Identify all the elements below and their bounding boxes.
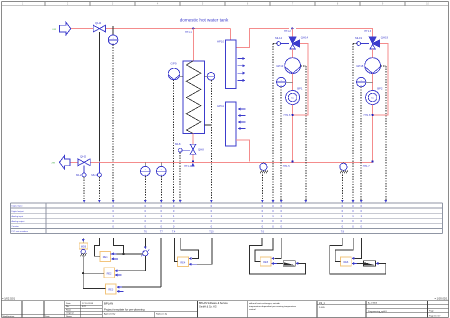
svg-text:HT1.3: HT1.3 (364, 30, 371, 33)
actuator ML8 (175, 142, 190, 152)
wire signal frame right of GP18 (372, 29, 374, 37)
svg-text:No.: No. (66, 306, 70, 308)
wire cold water pipe from QH4 down to return (98, 32, 100, 162)
relay RE2 (104, 268, 115, 278)
wire lamp to RE2 (118, 256, 146, 271)
relay RE4 (177, 257, 188, 267)
svg-text:HP10: HP10 (217, 40, 224, 44)
svg-text:ML4: ML4 (91, 173, 97, 177)
wire red HP11 to return (236, 140, 249, 162)
svg-text:ML2: ML2 (76, 173, 82, 177)
io table values (112, 204, 362, 234)
wire RE3 to table (117, 238, 161, 288)
wire signal ML2 to table (83, 177, 85, 202)
pin RE3 lower (117, 290, 123, 292)
svg-text:HT1.7: HT1.7 (363, 165, 370, 168)
lamp HL1 (141, 238, 149, 256)
svg-text:QH19: QH19 (381, 36, 389, 40)
tank heat exchanger W1 (183, 61, 205, 134)
valve QH2 (78, 155, 90, 166)
svg-text:without heat exchanger, outsid: without heat exchanger, outside (249, 302, 281, 305)
svg-text:Replaces by: Replaces by (156, 314, 167, 316)
svg-text:domestic hot water tank: domestic hot water tank (180, 18, 229, 23)
svg-text:RE2: RE2 (107, 272, 112, 275)
svg-text:QH8: QH8 (198, 147, 204, 151)
svg-text:Counter: Counter (12, 225, 20, 228)
wire signal GP9 to table (172, 80, 174, 202)
wire stem MD6 (82, 238, 84, 243)
svg-text:Date: Date (66, 302, 71, 305)
svg-text:temperature dependent pre-runn: temperature dependent pre-running temper… (249, 305, 297, 308)
svg-text:ML19: ML19 (355, 36, 362, 40)
sensor BT2 tank right (205, 73, 215, 81)
svg-text:HT1.4: HT1.4 (184, 165, 191, 168)
valve QH8 (190, 144, 204, 154)
svg-text:BPLAN: BPLAN (104, 301, 113, 305)
svg-text:Digital input: Digital input (12, 205, 23, 208)
wire red tank outlet down (192, 134, 194, 162)
svg-text:Approved by: Approved by (104, 313, 115, 316)
svg-text:GP18: GP18 (356, 64, 364, 68)
wire red drop into tank (192, 29, 194, 61)
wire return main red line (61, 161, 373, 163)
svg-text:HT1.2: HT1.2 (284, 30, 291, 33)
node HT1.4 (184, 160, 194, 168)
sensor BT4 on supply line (108, 26, 118, 45)
actuator ML4 (91, 162, 101, 177)
svg-text:T10: T10 (209, 230, 214, 233)
svg-text:BP1: BP1 (297, 86, 303, 90)
wire RE6 to actuator (341, 257, 352, 266)
actuator ML2 (76, 166, 86, 177)
svg-text:Digital output: Digital output (12, 210, 25, 213)
io table grid (11, 203, 443, 234)
svg-text:HT1.5: HT1.5 (283, 165, 290, 168)
svg-text:GmbH & Co. KG: GmbH & Co. KG (199, 305, 217, 308)
svg-text:HT1.1: HT1.1 (185, 31, 192, 34)
svg-text:2/2_1: 2/2_1 (319, 303, 325, 305)
wire signal BT5 to table (144, 176, 146, 202)
manifold HP10 (217, 40, 245, 89)
svg-text:27.10.2018: 27.10.2018 (82, 303, 94, 305)
svg-text:ML8: ML8 (175, 142, 181, 146)
svg-text:GP9: GP9 (171, 62, 177, 66)
svg-text:RE4: RE4 (180, 262, 185, 265)
valve QH4 (93, 21, 105, 32)
wire signal tank sensor to table (205, 80, 213, 202)
svg-text:HT1.6: HT1.6 (284, 114, 291, 117)
title block (2, 301, 449, 318)
svg-text:2-005: 2-005 (319, 307, 325, 309)
svg-text:QH2: QH2 (80, 155, 87, 159)
wire RE5 to actuator (260, 257, 271, 266)
node HT1.1 (185, 28, 194, 34)
text title domestic hot water tank (180, 18, 229, 23)
wire into RE4 left (175, 238, 178, 261)
wire into RE4 right upper (181, 238, 199, 260)
supply inlet block arrow (53, 22, 71, 35)
svg-text:RE6: RE6 (343, 261, 348, 264)
wire signal ML4 through table (98, 177, 100, 202)
svg-text:PLT axis numbers: PLT axis numbers (12, 230, 29, 233)
svg-text:HT1.8: HT1.8 (364, 114, 371, 117)
svg-text:ML14: ML14 (275, 36, 282, 40)
svg-text:Project template for pre-plann: Project template for pre-planning (104, 308, 145, 312)
wire supply main red line (71, 29, 374, 48)
pin RE2 lower (115, 274, 121, 276)
svg-text:RE5: RE5 (263, 261, 268, 264)
manifold HP11 (217, 102, 245, 146)
relay RE3 (106, 284, 117, 294)
wire MD6 bus down (82, 254, 84, 288)
wire MD6 to RE2 (83, 272, 104, 274)
svg-text:T.4: T.4 (172, 230, 176, 233)
svg-text:RE1: RE1 (103, 256, 108, 259)
wire signal frame right of GP13 (292, 29, 294, 37)
svg-text:= 1/03.02/1: = 1/03.02/1 (434, 297, 448, 301)
wire signal BT6 to table (160, 176, 162, 202)
pin RE2 upper (115, 270, 119, 272)
svg-text:control: control (249, 308, 256, 311)
svg-text:MD6: MD6 (81, 246, 87, 249)
svg-text:Analog input: Analog input (12, 215, 24, 218)
wire into RE1 left (95, 238, 101, 256)
svg-text:Programming_ap001: Programming_ap001 (368, 311, 388, 313)
svg-text:Analog output: Analog output (12, 220, 25, 223)
svg-text:GP13: GP13 (276, 64, 284, 68)
wire RE4 lower to table (189, 238, 212, 266)
node HT1.2 (284, 28, 293, 34)
svg-text:BP2: BP2 (377, 86, 383, 90)
svg-text:Repl.: Repl. (66, 309, 71, 311)
svg-text:QH4: QH4 (95, 21, 102, 25)
text sheet ref right (434, 297, 448, 301)
node HT1.3 (364, 30, 371, 33)
svg-text:HP11: HP11 (217, 104, 224, 108)
svg-text:QH14: QH14 (301, 36, 309, 40)
relay RE1 (100, 252, 111, 262)
wire signal from sensor BT4 to table (112, 45, 114, 203)
sensor BT6 on return (157, 162, 167, 176)
pump GP9 (168, 62, 183, 80)
svg-text:A_1-W05: A_1-W05 (368, 302, 378, 305)
wire signal ML8 to table (179, 153, 181, 203)
svg-text:Modification: Modification (3, 315, 15, 318)
svg-text:Original: Original (66, 312, 74, 315)
svg-text:Page 16 / 17: Page 16 / 17 (429, 315, 441, 317)
wire RE1 right node (111, 238, 143, 255)
svg-text:Date: Date (45, 315, 50, 318)
svg-text:= 1/02.02/1: = 1/02.02/1 (2, 297, 16, 301)
pin RE1 lower (111, 258, 118, 260)
return outlet block arrow (52, 156, 70, 169)
text sheet ref left (2, 297, 16, 301)
svg-text:RE3: RE3 (108, 289, 113, 292)
sensor BT5 on return (141, 162, 151, 176)
wire MD6 to RE3 (83, 287, 105, 289)
motor MD6 (79, 243, 88, 256)
